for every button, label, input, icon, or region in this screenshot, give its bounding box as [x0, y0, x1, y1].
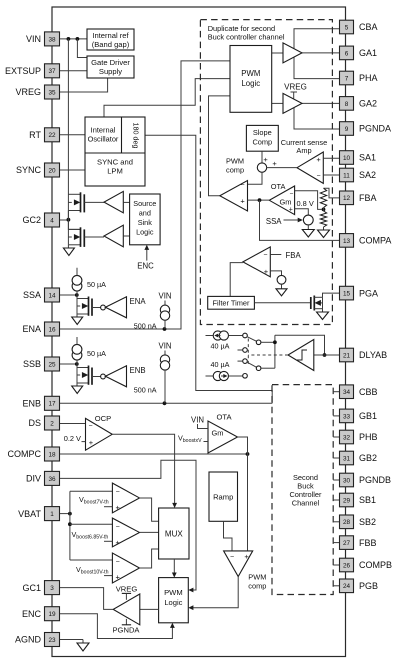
- svg-text:FBA: FBA: [359, 193, 377, 203]
- comparator Vboost10V: [112, 553, 139, 583]
- svg-text:PWM: PWM: [248, 572, 266, 581]
- svg-text:18: 18: [48, 451, 56, 458]
- wire switches to DLYAB node: [261, 335, 325, 368]
- wire comp2 to MUX: [140, 531, 159, 533]
- block filter timer: [208, 296, 255, 309]
- svg-text:+: +: [264, 267, 269, 276]
- wire comp3 to MUX: [140, 549, 159, 568]
- current source 50uA B: [72, 337, 106, 364]
- wire DS to OCP: [60, 423, 86, 425]
- dashed box second channel: [272, 385, 333, 595]
- label VREG gc1: [116, 585, 138, 600]
- block gate driver supply: [87, 56, 134, 78]
- svg-text:PGB: PGB: [359, 581, 378, 591]
- dashed box duplicate channel: [200, 20, 332, 325]
- junction divider mid: [322, 208, 326, 212]
- current source 500nA A: [134, 291, 172, 330]
- svg-text:15: 15: [343, 291, 351, 298]
- pin VIN 38: [26, 32, 60, 46]
- svg-text:+: +: [240, 197, 245, 206]
- wire VBAT to bus: [60, 513, 70, 515]
- svg-text:10: 10: [343, 155, 351, 162]
- pin FBA 12: [340, 191, 377, 205]
- svg-text:MUX: MUX: [165, 529, 183, 538]
- svg-text:VIN: VIN: [159, 341, 172, 350]
- wire VREG to Gate Driver Supply: [60, 78, 108, 92]
- wire GA2 output: [302, 102, 340, 104]
- bus VBAT: [69, 491, 71, 560]
- ground divider: [318, 230, 330, 238]
- svg-text:GB1: GB1: [359, 411, 377, 421]
- svg-text:FBB: FBB: [359, 538, 377, 548]
- wire bus to comp2: [70, 523, 113, 525]
- svg-text:Sink: Sink: [138, 218, 153, 227]
- svg-text:21: 21: [343, 352, 351, 359]
- wire sink buffer to logic: [123, 235, 129, 237]
- current source 40uA upper: [206, 331, 243, 351]
- svg-text:LPM: LPM: [107, 167, 123, 176]
- wire COMPA: [260, 200, 340, 240]
- svg-text:PGNDA: PGNDA: [112, 626, 140, 635]
- wire PWM logic to GA1 buffer: [272, 52, 283, 54]
- svg-text:OTA: OTA: [216, 412, 232, 421]
- svg-text:PWM: PWM: [241, 69, 260, 78]
- block source and sink logic: [130, 194, 161, 245]
- wire ota plus to ref: [295, 209, 309, 215]
- wire ota A output: [248, 199, 270, 201]
- wire EXTSUP to Gate Driver Supply: [60, 70, 88, 72]
- svg-text:23: 23: [48, 637, 56, 644]
- svg-text:500 nA: 500 nA: [134, 385, 157, 394]
- wire PWM logic to GC1 buffer: [140, 608, 159, 610]
- svg-text:36: 36: [48, 476, 56, 483]
- svg-text:−: −: [263, 252, 267, 259]
- wire ENA rail to PWM logic enable: [60, 61, 231, 329]
- svg-text:4: 4: [50, 217, 54, 224]
- wire GC1 to buffer: [60, 588, 114, 610]
- svg-text:OCP: OCP: [95, 414, 111, 423]
- label current sense amp: [281, 138, 327, 155]
- svg-text:26: 26: [343, 562, 351, 569]
- svg-text:PWM: PWM: [164, 588, 183, 597]
- svg-text:GA2: GA2: [359, 99, 377, 109]
- pin PGNDB 30: [333, 473, 391, 487]
- wire GC2 pin node: [60, 219, 69, 221]
- svg-text:32: 32: [343, 434, 351, 441]
- svg-text:SYNC and: SYNC and: [97, 158, 133, 167]
- wire VIN rail to gate driver supply: [77, 39, 87, 58]
- junction ENB 500nA: [163, 401, 167, 405]
- svg-text:17: 17: [48, 401, 56, 408]
- svg-text:SYNC: SYNC: [16, 165, 42, 175]
- buffer GA1: [283, 43, 302, 63]
- wire Ramp to PWM comp: [224, 521, 233, 551]
- svg-text:180 deg: 180 deg: [132, 123, 141, 149]
- svg-text:Internal ref: Internal ref: [92, 31, 129, 40]
- label duplicate channel: [208, 24, 285, 42]
- svg-text:−: −: [88, 423, 92, 430]
- svg-text:PGA: PGA: [359, 288, 378, 298]
- wire source buffer to logic: [123, 201, 129, 203]
- svg-text:SSA: SSA: [266, 217, 282, 226]
- pin GA1 6: [340, 46, 378, 60]
- svg-text:12: 12: [343, 195, 351, 202]
- summer node: [257, 155, 277, 173]
- svg-text:+: +: [244, 552, 249, 561]
- pin CBA 5: [340, 20, 378, 34]
- transistor SSA switch: [77, 295, 101, 316]
- svg-text:1: 1: [50, 511, 54, 518]
- ground GC2 low-side: [63, 245, 74, 256]
- svg-text:27: 27: [343, 540, 351, 547]
- pin SA1 10: [340, 151, 377, 165]
- label VREG ga2: [284, 82, 307, 98]
- svg-text:(Band gap): (Band gap): [92, 40, 130, 49]
- svg-text:37: 37: [48, 68, 56, 75]
- svg-text:Amp: Amp: [296, 146, 311, 155]
- svg-text:VREG: VREG: [284, 82, 307, 91]
- svg-text:34: 34: [343, 389, 351, 396]
- svg-text:28: 28: [343, 519, 351, 526]
- svg-text:ENC: ENC: [137, 261, 154, 270]
- junction COMPA node: [258, 198, 262, 202]
- svg-text:DIV: DIV: [26, 474, 41, 484]
- wire SA2 to amp: [323, 174, 339, 176]
- svg-text:EXTSUP: EXTSUP: [5, 66, 41, 76]
- wire CBA to PHA bootstrap: [294, 29, 340, 79]
- svg-text:24: 24: [343, 583, 351, 590]
- svg-text:Filter Timer: Filter Timer: [213, 299, 250, 308]
- svg-text:19: 19: [48, 611, 56, 618]
- svg-text:30: 30: [343, 477, 351, 484]
- wire COMPC to OTA output: [60, 453, 248, 455]
- inverter bubble ENA: [101, 305, 106, 310]
- svg-text:+: +: [289, 207, 293, 214]
- resistor divider upper: [320, 188, 326, 207]
- svg-text:+: +: [116, 573, 121, 582]
- pin PGB 24: [333, 579, 378, 593]
- svg-text:PHA: PHA: [359, 73, 378, 83]
- svg-text:SB2: SB2: [359, 517, 376, 527]
- svg-text:SSB: SSB: [23, 359, 41, 369]
- svg-text:comp: comp: [226, 166, 244, 175]
- wire GC2 node to drains: [68, 211, 80, 230]
- svg-text:50 µA: 50 µA: [87, 349, 106, 358]
- wire SSA pin to node: [60, 294, 77, 296]
- label second channel: [289, 473, 322, 508]
- pin SB1 29: [333, 493, 376, 507]
- svg-text:8: 8: [345, 101, 349, 108]
- svg-text:40 µA: 40 µA: [211, 342, 230, 351]
- current source 50uA A: [72, 268, 106, 295]
- svg-text:Gate Driver: Gate Driver: [91, 58, 130, 67]
- block MUX: [159, 508, 189, 559]
- svg-text:CBB: CBB: [359, 387, 378, 397]
- pin SB2 28: [333, 515, 376, 529]
- svg-text:COMPA: COMPA: [359, 236, 391, 246]
- svg-text:+: +: [316, 155, 321, 164]
- svg-text:38: 38: [48, 36, 56, 43]
- svg-text:ENC: ENC: [22, 609, 42, 619]
- block Ramp: [209, 472, 238, 521]
- junction VIN rail A: [67, 37, 71, 41]
- buffer ENB driver: [105, 366, 145, 387]
- resistor divider lower: [320, 208, 326, 230]
- transistor GC2 high-side: [68, 192, 104, 212]
- ota channel C: [208, 412, 238, 453]
- wire 180deg clock to second channel: [145, 135, 272, 403]
- pin ENA 16: [22, 322, 59, 336]
- pin GB1 33: [333, 409, 377, 423]
- junction VIN rail B: [76, 37, 80, 41]
- label 0.8V: [297, 199, 314, 208]
- svg-text:2: 2: [50, 420, 54, 427]
- svg-text:SA1: SA1: [359, 153, 376, 163]
- junction ENA 500nA: [163, 327, 167, 331]
- wire summer to PWM comp A: [248, 172, 263, 184]
- junction bus comp2: [68, 522, 72, 526]
- pin CBB 34: [333, 385, 377, 399]
- svg-text:14: 14: [48, 292, 56, 299]
- svg-text:7: 7: [345, 75, 349, 82]
- svg-text:COMPB: COMPB: [359, 560, 392, 570]
- ground SSA: [72, 314, 83, 325]
- transistor GC2 low-side: [68, 227, 104, 247]
- svg-text:20: 20: [48, 167, 56, 174]
- comparator FBA: [243, 247, 270, 277]
- pin PGA 15: [340, 286, 379, 300]
- transistor PGA: [311, 293, 340, 312]
- svg-text:PWM: PWM: [226, 157, 244, 166]
- svg-text:+: +: [263, 155, 268, 164]
- svg-text:−: −: [241, 182, 245, 189]
- wire DIV to PWM logic C: [60, 460, 197, 592]
- comparator Vboost685V: [112, 518, 139, 547]
- svg-text:SB1: SB1: [359, 495, 376, 505]
- IC boundary: [52, 7, 346, 657]
- svg-text:0.2 V: 0.2 V: [64, 434, 81, 443]
- svg-text:25: 25: [48, 361, 56, 368]
- svg-text:ENA: ENA: [130, 297, 147, 306]
- junction COMPC node: [246, 452, 250, 456]
- svg-text:29: 29: [343, 497, 351, 504]
- svg-text:AGND: AGND: [15, 635, 42, 645]
- svg-text:and: and: [139, 209, 151, 218]
- svg-text:0.8 V: 0.8 V: [297, 199, 314, 208]
- wire FBA ref: [270, 271, 281, 276]
- wire ENB to second channel: [60, 402, 273, 404]
- svg-text:FBA: FBA: [286, 251, 302, 260]
- wire filter to PGA gate: [254, 302, 310, 304]
- svg-text:3: 3: [50, 585, 54, 592]
- ground FBA ref: [276, 284, 287, 296]
- wire PWM comp A output to PWM logic: [209, 96, 231, 196]
- buffer GC2 source driver: [104, 191, 123, 212]
- pin DLYAB 21: [340, 348, 388, 362]
- wire oscillator clock to PWM logic: [104, 79, 230, 117]
- svg-text:−: −: [116, 559, 120, 566]
- svg-text:DS: DS: [28, 418, 41, 428]
- inverter bubble ENB: [101, 374, 106, 379]
- current source 40uA lower: [206, 360, 243, 381]
- wire FBA comp to filter: [230, 263, 243, 297]
- junction SSA node: [75, 293, 79, 297]
- pin EXTSUP 37: [5, 64, 60, 78]
- svg-text:31: 31: [343, 455, 351, 462]
- svg-text:Internal: Internal: [91, 126, 116, 135]
- wire bus to comp3: [70, 559, 113, 561]
- svg-text:VIN: VIN: [26, 34, 41, 44]
- pin COMPC 18: [8, 447, 60, 461]
- svg-text:GB2: GB2: [359, 453, 377, 463]
- current source 500nA B: [134, 341, 172, 403]
- label PWM comp A: [226, 157, 244, 175]
- wire VIN rail to GC2 driver: [67, 39, 69, 245]
- wire GA1 output: [302, 52, 340, 54]
- svg-text:Logic: Logic: [164, 598, 182, 607]
- svg-text:33: 33: [343, 413, 351, 420]
- svg-text:Logic: Logic: [136, 228, 154, 237]
- svg-text:5: 5: [345, 24, 349, 31]
- block slope comp: [246, 125, 278, 151]
- svg-text:50 µA: 50 µA: [87, 280, 106, 289]
- svg-text:DLYAB: DLYAB: [359, 350, 387, 360]
- block PWM logic C: [159, 578, 189, 623]
- block internal reference: [87, 29, 134, 50]
- wire MUX to PWM logic C: [173, 559, 175, 575]
- arrow MUX output: [172, 572, 177, 577]
- pin FBB 27: [333, 536, 376, 550]
- pin GA2 8: [340, 97, 378, 111]
- wire bus to comp1: [70, 490, 113, 492]
- wire comp1 to MUX: [140, 498, 159, 521]
- svg-text:GC2: GC2: [22, 215, 41, 225]
- block PWM logic A: [230, 46, 272, 113]
- svg-text:VREG: VREG: [116, 585, 138, 594]
- pin SSA 14: [23, 288, 60, 302]
- svg-text:22: 22: [48, 132, 56, 139]
- wire FBA pin to divider: [324, 188, 340, 198]
- source 0.8V: [303, 215, 313, 225]
- wire DLYAB pin: [314, 354, 340, 356]
- pin SA2 11: [340, 168, 377, 182]
- label Vboost10V-th: [76, 565, 112, 576]
- wire ota C output: [238, 437, 248, 551]
- buffer ENA driver: [105, 297, 146, 318]
- buffer GC1 driver: [113, 594, 140, 625]
- wire SA1 to amp: [323, 157, 339, 159]
- pin GC1 3: [22, 581, 59, 595]
- svg-text:−: −: [116, 524, 120, 531]
- pin VBAT 1: [18, 507, 59, 521]
- label VboostxV: [178, 434, 208, 445]
- pin AGND 23: [15, 633, 60, 647]
- svg-text:PGNDA: PGNDA: [359, 124, 391, 134]
- label PGNDA gc1: [112, 619, 140, 635]
- pin DS 2: [28, 416, 59, 430]
- transistor SSB switch: [77, 364, 101, 385]
- svg-text:9: 9: [345, 126, 349, 133]
- svg-text:PHB: PHB: [359, 432, 378, 442]
- svg-text:COMPC: COMPC: [8, 449, 42, 459]
- svg-text:−: −: [116, 489, 120, 496]
- junction DLYAB node: [323, 353, 327, 357]
- pin PHB 32: [333, 430, 377, 444]
- svg-text:Channel: Channel: [292, 498, 320, 507]
- svg-text:comp: comp: [248, 581, 266, 590]
- ground AGND: [77, 640, 89, 652]
- block oscillator and sync: [85, 117, 145, 186]
- svg-text:Source: Source: [133, 199, 156, 208]
- svg-text:Slope: Slope: [253, 128, 272, 137]
- wire PWM comp C output: [188, 577, 238, 611]
- pin ENC 19: [22, 607, 60, 621]
- junction VBAT bus: [68, 512, 72, 516]
- label Vboost685V-th: [72, 530, 113, 541]
- svg-text:−: −: [290, 191, 294, 198]
- junction SSB node: [75, 362, 79, 366]
- svg-text:Buck controller channel: Buck controller channel: [208, 33, 285, 42]
- svg-text:PGNDB: PGNDB: [359, 475, 391, 485]
- wire VIN to Internal ref: [60, 38, 88, 40]
- pin COMPA 13: [340, 234, 392, 248]
- wire SSB pin to node: [60, 363, 77, 365]
- svg-text:Oscillator: Oscillator: [88, 135, 119, 144]
- svg-text:SSA: SSA: [23, 290, 41, 300]
- pin GB2 31: [333, 451, 377, 465]
- svg-text:ENB: ENB: [22, 399, 41, 409]
- svg-text:+: +: [272, 159, 277, 168]
- svg-text:35: 35: [48, 89, 56, 96]
- comparator OCP: [86, 414, 113, 450]
- svg-text:+: +: [116, 538, 121, 547]
- svg-text:ENB: ENB: [130, 366, 146, 375]
- svg-text:GA1: GA1: [359, 48, 377, 58]
- amp current sense: [297, 152, 323, 183]
- comparator Vboost7V: [112, 483, 139, 513]
- svg-text:OTA: OTA: [271, 182, 286, 191]
- wire ENC to PWM logic C: [60, 614, 175, 639]
- wire slope to summer: [261, 151, 263, 163]
- buffer GA2: [283, 93, 302, 113]
- pin VREG 35: [15, 85, 59, 99]
- ota A: [269, 182, 294, 215]
- svg-text:Gm: Gm: [211, 429, 223, 438]
- source FBA ref: [277, 275, 286, 284]
- wire PWM logic to GA2 buffer: [272, 102, 283, 104]
- label VIN ota: [191, 415, 208, 428]
- svg-text:Logic: Logic: [241, 79, 260, 88]
- wire ota minus to divider: [295, 191, 322, 210]
- svg-text:+: +: [116, 503, 121, 512]
- junction switch node: [273, 340, 277, 344]
- wire SYNC to LPM: [60, 169, 86, 171]
- pin GC2 4: [22, 213, 59, 227]
- svg-text:−: −: [317, 173, 321, 180]
- pin DIV 36: [26, 471, 60, 485]
- svg-text:VREG: VREG: [15, 87, 41, 97]
- wire amp to summer: [267, 167, 297, 169]
- svg-text:GC1: GC1: [22, 583, 41, 593]
- svg-text:11: 11: [343, 172, 350, 179]
- svg-text:Supply: Supply: [99, 67, 122, 76]
- comparator PWM comp C: [224, 551, 253, 577]
- label PWM comp C: [248, 572, 266, 590]
- svg-text:6: 6: [345, 50, 349, 57]
- svg-text:13: 13: [343, 238, 351, 245]
- label Vboost7V-th: [79, 495, 112, 507]
- signal ENC into logic: [137, 245, 154, 270]
